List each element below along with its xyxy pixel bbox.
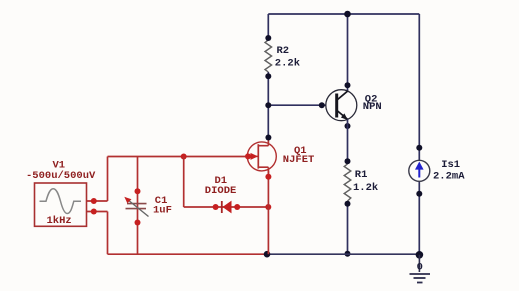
svg-text:Is1: Is1	[441, 159, 460, 171]
wire bottom dark rail ground net	[267, 253, 419, 255]
node Is1 bottom pin	[416, 191, 422, 197]
node R1 top pin	[345, 158, 351, 164]
node top rail junction	[344, 11, 351, 18]
ground	[410, 255, 431, 283]
svg-text:R1: R1	[355, 169, 368, 181]
wire D1 branch vertical	[183, 157, 185, 208]
node Q2 emitter pin	[345, 123, 351, 129]
svg-text:2.2mA: 2.2mA	[433, 171, 465, 183]
node bottom rail black junction	[264, 251, 271, 258]
node D1 wire to source junction	[265, 204, 271, 210]
wire Q1 source vertical	[267, 171, 269, 254]
resistor R2	[265, 40, 272, 72]
wire top red rail gate net	[108, 156, 249, 158]
svg-text:-500u/500uV: -500u/500uV	[26, 170, 96, 182]
node Q1 gate pin	[245, 153, 251, 159]
transistor Q1 NJFET	[247, 138, 276, 177]
node R2 top pin	[265, 35, 271, 41]
node Is1 top pin	[416, 145, 422, 151]
node Q1 drain pin black	[265, 135, 271, 141]
current source Is1	[409, 160, 430, 181]
wire V1 upper terminal	[87, 200, 108, 202]
wire top blue rail VCC net	[268, 13, 419, 15]
transistor Q2	[326, 90, 357, 121]
source V1 sine box	[35, 183, 87, 226]
wire Q2 emitter vertical R1 branch	[347, 119, 349, 254]
diode D1	[222, 201, 232, 214]
capacitor C1	[124, 197, 148, 217]
node Q2 collector pin	[345, 82, 351, 88]
svg-text:1.2k: 1.2k	[353, 182, 378, 194]
node R1 bottom pin	[345, 201, 351, 207]
resistor R1	[344, 164, 351, 201]
svg-text:DIODE: DIODE	[205, 185, 237, 197]
node Q1 source pin	[265, 174, 271, 180]
wire right blue vertical Is1 branch	[418, 14, 420, 255]
node D1 left pin	[213, 204, 219, 210]
wire V1 lower terminal	[87, 211, 108, 213]
svg-text:0: 0	[417, 262, 423, 274]
node R1 bottom rail junction	[345, 251, 351, 257]
wire C1 branch vertical	[137, 157, 139, 255]
wire left blue vertical R2 branch	[267, 14, 269, 138]
node R2 bottom pin	[265, 73, 271, 79]
svg-text:R2: R2	[277, 45, 290, 57]
wire left red vertical lower	[107, 212, 109, 255]
wire bottom red rail	[108, 253, 268, 255]
node V1 plus pin	[91, 198, 97, 204]
node C1 bottom pin	[135, 220, 141, 226]
node ground corner junction	[416, 251, 424, 259]
wire left red vertical upper	[107, 157, 109, 202]
wire Q2 collector vertical	[347, 14, 349, 91]
wire D1 horizontal	[184, 206, 269, 208]
node top rail D1 branch junction	[181, 154, 187, 160]
node Q2 base pin	[319, 102, 325, 108]
svg-text:1uF: 1uF	[153, 205, 172, 217]
node V1 minus pin	[91, 209, 97, 215]
node base wire junction	[265, 102, 271, 108]
svg-text:NPN: NPN	[363, 101, 382, 113]
svg-text:NJFET: NJFET	[283, 154, 315, 166]
svg-text:1kHz: 1kHz	[47, 215, 72, 227]
svg-text:2.2k: 2.2k	[275, 58, 300, 70]
wire Q2 base wire	[268, 104, 326, 106]
node D1 right pin	[234, 204, 240, 210]
node C1 top pin	[135, 188, 141, 194]
